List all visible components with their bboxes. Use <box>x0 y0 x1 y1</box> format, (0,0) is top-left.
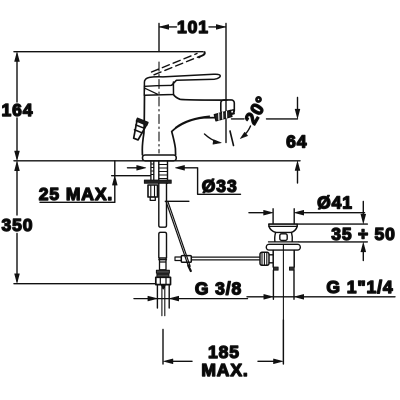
dimension 101 line <box>160 26 225 28</box>
supply shank tube below deck <box>159 161 168 183</box>
drain tailpipe <box>273 270 294 299</box>
spout underside inner line <box>176 116 210 127</box>
washer under deck <box>144 180 171 183</box>
dimension 101 extension line left (faucet centerline ext) <box>158 24 160 52</box>
svg-text:Ø33: Ø33 <box>202 176 238 196</box>
G 3/8 arrowhead left <box>148 296 157 301</box>
drain cap rim <box>269 223 297 225</box>
185 MAX extension line right (drain centerline ext) <box>282 320 284 364</box>
horizontal actuator rod <box>191 257 260 260</box>
handle lever and cap outline <box>144 74 220 91</box>
diameter 33 arrow right and leader <box>185 168 241 195</box>
dimension 350 arrowheads <box>15 162 20 283</box>
joint mark <box>161 285 166 290</box>
G 1"1/4 leader line <box>247 296 395 298</box>
supply tube lower segment <box>159 232 167 258</box>
drain knob neck <box>269 255 273 263</box>
svg-text:164: 164 <box>2 100 34 120</box>
faucet centerline <box>158 62 160 153</box>
25 MAX underline <box>40 201 115 203</box>
20 degree left arc <box>205 134 218 142</box>
185 MAX dim line right arrow pointing right <box>258 360 274 362</box>
pop-up rod diagonal <box>166 202 190 267</box>
pop-up lever horizontal seat line <box>165 200 189 202</box>
svg-text:35 ÷ 50: 35 ÷ 50 <box>331 224 396 244</box>
svg-text:350: 350 <box>2 215 34 235</box>
svg-text:101: 101 <box>177 17 209 37</box>
handle cap underside line <box>145 84 171 87</box>
svg-text:25 MAX.: 25 MAX. <box>39 184 113 204</box>
aerator end notch <box>229 110 234 115</box>
dimension 64 horizontal reference from aerator <box>232 118 298 120</box>
supply tube collar <box>159 258 167 270</box>
top reference line (handle max height) <box>14 51 203 53</box>
raised handle tip <box>199 52 205 57</box>
svg-text:Ø41: Ø41 <box>317 193 353 213</box>
handle cap skirt <box>144 82 173 95</box>
dimension 101 arrowheads <box>160 25 226 30</box>
spout underside outer sweep <box>172 118 216 155</box>
drain body <box>273 250 294 267</box>
185 MAX extension line left <box>162 330 164 365</box>
pop-up rod knob on faucet left <box>130 118 149 141</box>
dimension 64 vertical lines <box>297 98 299 184</box>
faucet body left edge <box>142 95 144 155</box>
svg-text:G 3/8: G 3/8 <box>195 279 242 299</box>
mounting stud below deck <box>151 161 154 180</box>
drain flange top line <box>269 241 299 243</box>
deck reference line <box>14 160 300 162</box>
svg-text:20°: 20° <box>241 92 273 127</box>
inner supply tube <box>162 285 165 316</box>
diameter 41 dim line left <box>249 212 264 214</box>
stud thread ticks <box>151 164 154 175</box>
25 MAX arrowhead pointing up to deck bottom <box>112 176 117 185</box>
dimension 350 vertical lines <box>16 163 18 282</box>
supply tube upper segment <box>159 183 167 227</box>
G 3/8 arrowhead right <box>170 296 179 301</box>
drain centerline <box>282 245 284 364</box>
dimension 164 vertical lines <box>16 54 18 160</box>
handle cap skirt shading <box>145 88 157 94</box>
drain cap cylinder <box>275 232 293 241</box>
dimension 101 extension line right (spout tip ext) <box>225 24 227 143</box>
drain cap trumpet sides <box>269 224 297 232</box>
raised handle dashed lines <box>154 56 200 75</box>
supply pipe below nut <box>157 285 169 308</box>
faucet body spout top edge <box>174 95 228 101</box>
drain cap square hole <box>280 234 287 241</box>
G3/8 hex nut <box>156 277 171 284</box>
25 MAX leader vertical <box>114 161 116 203</box>
G 1"1/4 arrowhead right <box>295 294 304 299</box>
20 degree right arc <box>244 126 251 136</box>
svg-text:185: 185 <box>208 342 240 362</box>
35-50 arrows <box>362 202 364 261</box>
G 3/8 leader line <box>134 298 248 300</box>
faucet base plate <box>143 155 177 161</box>
stud tip <box>150 197 155 200</box>
linkage clamp <box>181 256 191 263</box>
drain coupling blocks <box>273 267 278 270</box>
G 1"1/4 arrowhead left <box>264 294 273 299</box>
shank thread lines <box>159 165 168 179</box>
drain knurled knob <box>260 252 269 265</box>
compression rings <box>156 270 169 273</box>
hose-end reference line <box>14 283 156 285</box>
deck bottom line <box>112 175 151 177</box>
svg-text:G 1"1/4: G 1"1/4 <box>326 277 393 297</box>
aerator tilted block <box>214 110 232 120</box>
35-50 upper reference line <box>297 223 367 225</box>
linkage tab <box>175 257 181 261</box>
dimension 164 arrowheads <box>15 52 20 160</box>
35-50 lower reference line <box>299 241 368 243</box>
stud hex nut <box>148 185 158 197</box>
drain flange disk <box>266 244 300 250</box>
spout tip cap <box>221 100 235 114</box>
diameter 33 arrow left <box>128 167 138 169</box>
svg-text:MAX.: MAX. <box>201 360 248 380</box>
pop-up rod end tip <box>188 266 191 272</box>
svg-text:64: 64 <box>286 132 307 152</box>
diameter 41 dim line right <box>304 212 365 214</box>
diameter 41 extension lines <box>273 209 294 224</box>
185 MAX dim line left arrow pointing left <box>173 360 192 362</box>
20 degree tilted stream line <box>230 131 234 146</box>
dimension 64 arrowheads <box>295 109 300 170</box>
